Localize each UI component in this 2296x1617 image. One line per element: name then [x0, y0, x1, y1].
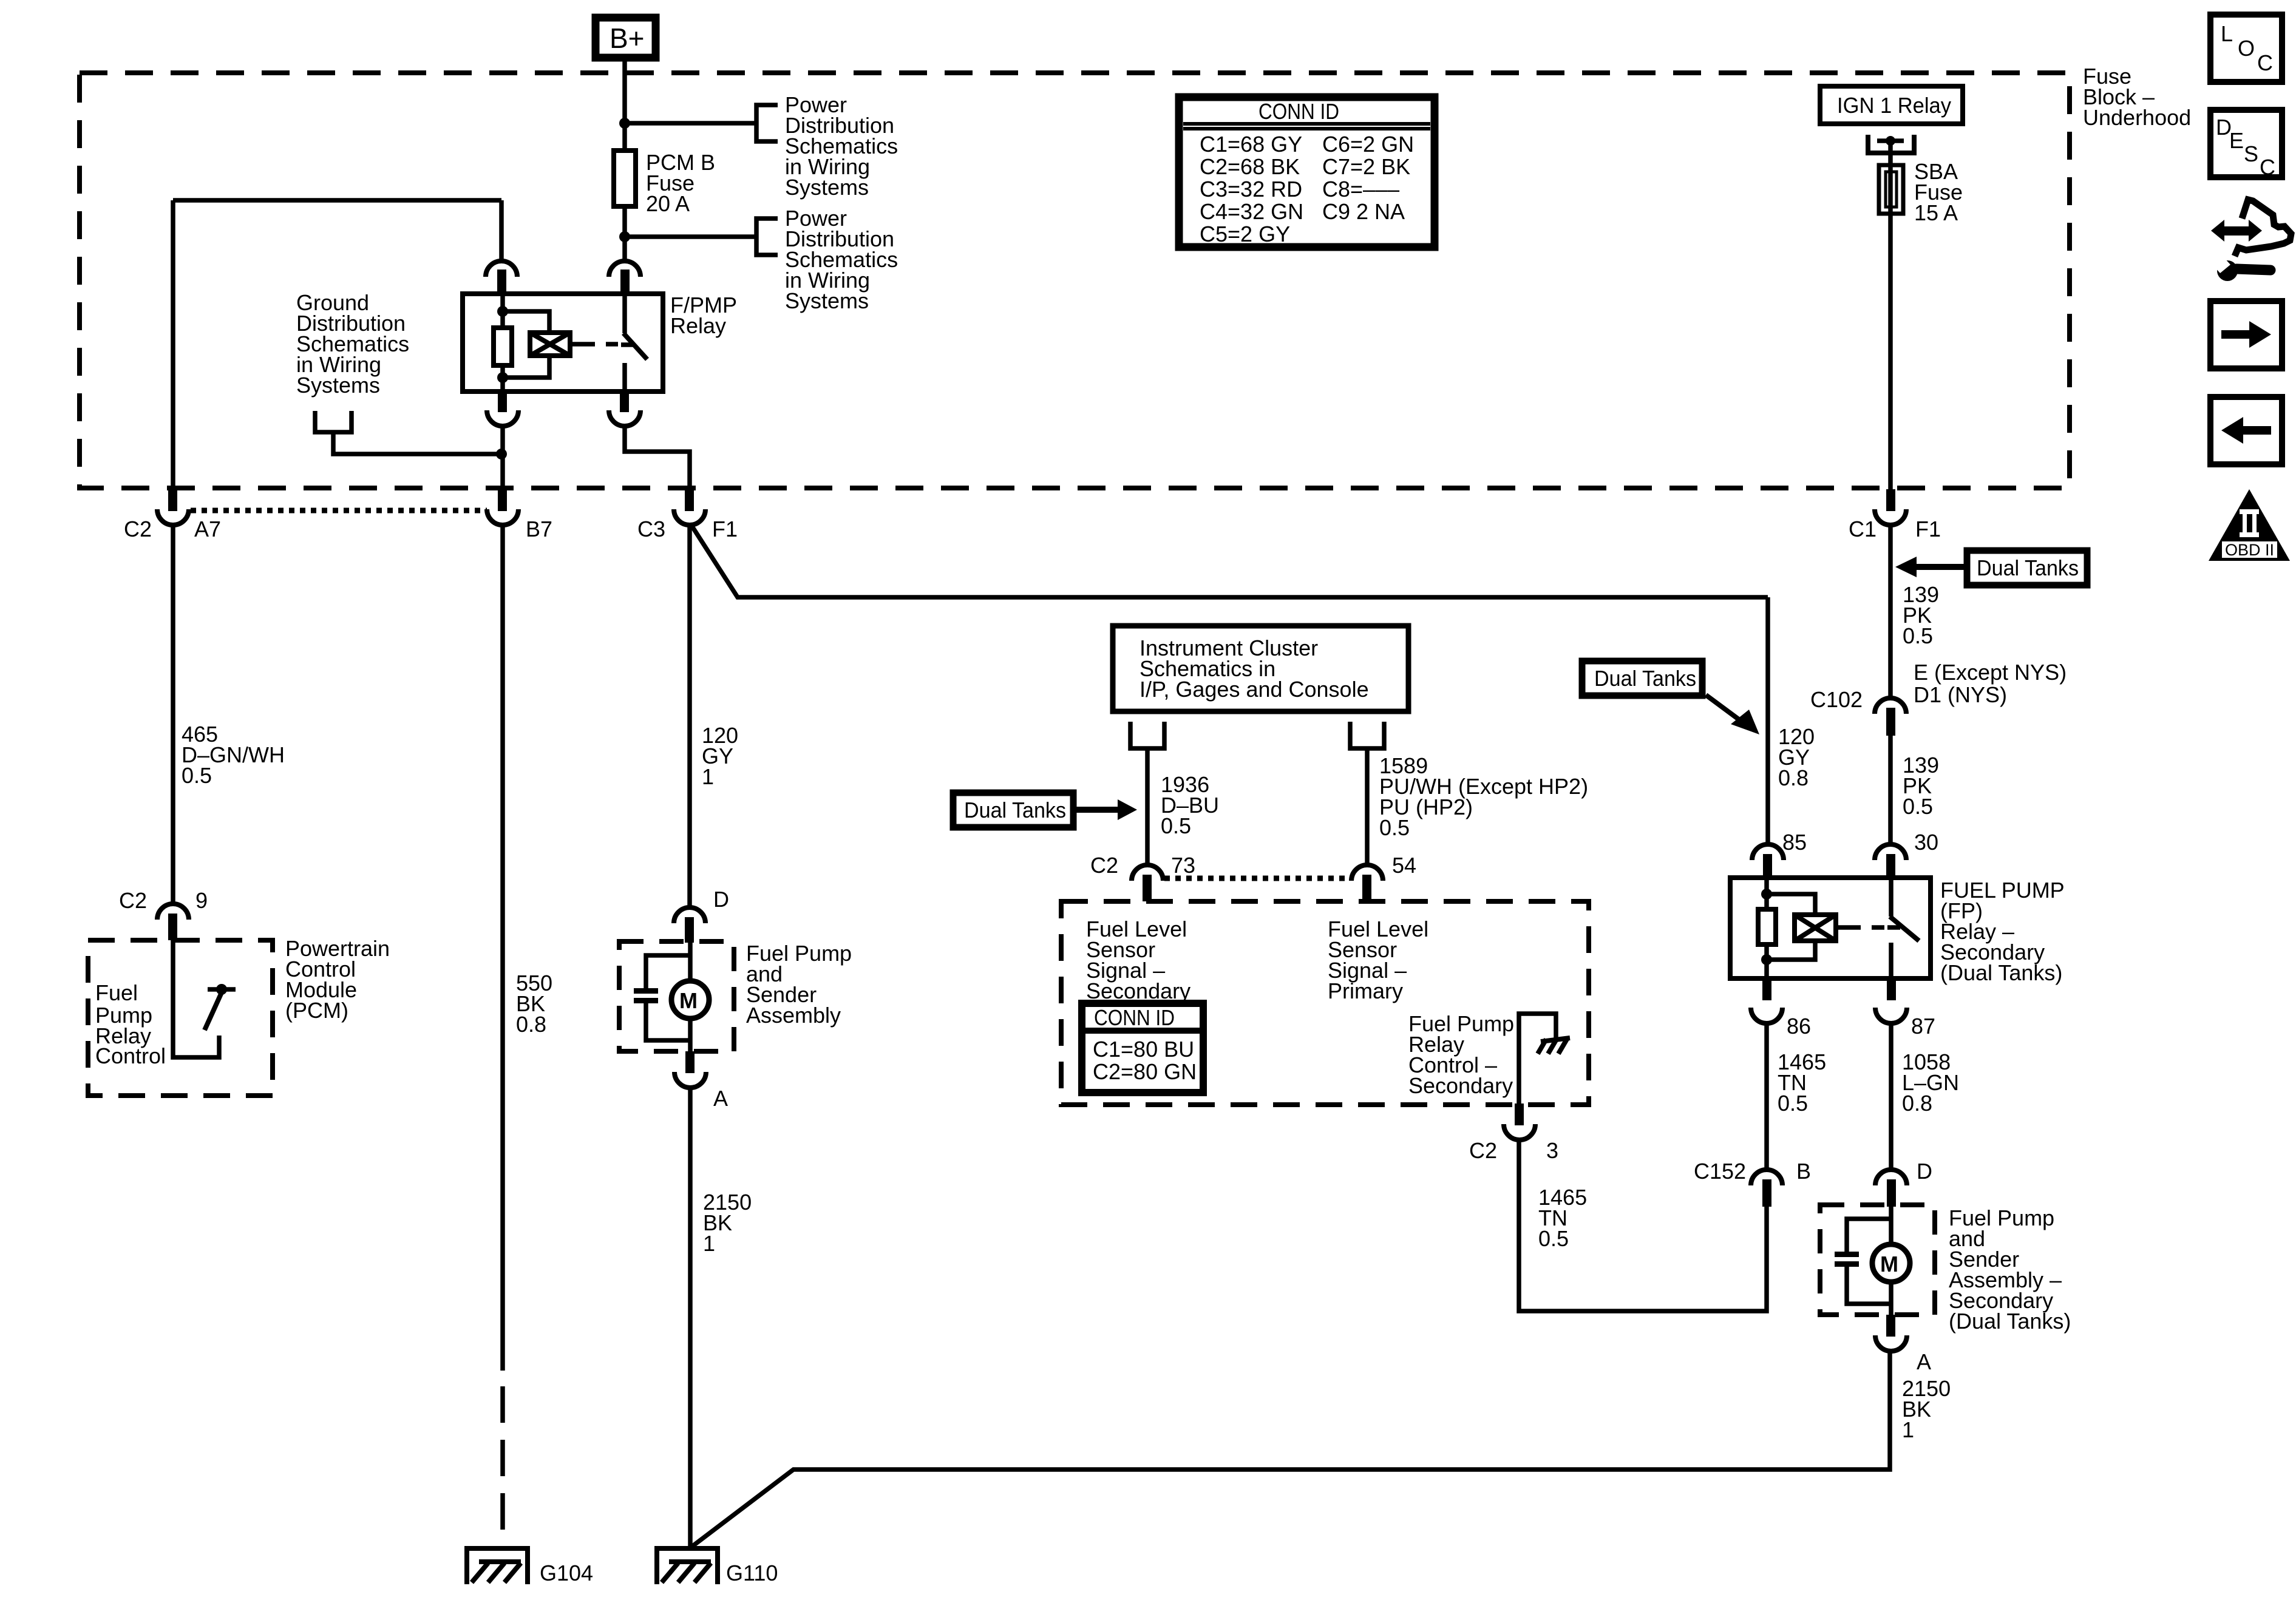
wire IGN feed through SBA fuse: [1888, 143, 1893, 489]
svg-text:CONN ID: CONN ID: [1258, 99, 1339, 124]
wire motor to box bottom: [688, 1019, 693, 1051]
PCM middle dashed box: [1061, 901, 1589, 1105]
capacitor branch secondary pump: [1835, 1219, 1891, 1304]
connector 85: [1752, 830, 1807, 879]
svg-text:Systems: Systems: [296, 373, 380, 398]
table CONN ID PCM: [1082, 1003, 1203, 1093]
svg-text:C5=2 GY: C5=2 GY: [1200, 222, 1290, 246]
icon LOC box: [2210, 15, 2282, 82]
svg-text:3: 3: [1546, 1138, 1558, 1163]
svg-text:C152: C152: [1694, 1159, 1746, 1184]
fuse PCM B 20 A: [614, 150, 715, 216]
driver output with ground ref: [1519, 1014, 1556, 1105]
off-page bracket power distribution 2: [756, 219, 778, 255]
label Powertrain Control Module PCM left: [285, 936, 390, 1023]
svg-text:Secondary: Secondary: [1086, 978, 1190, 1003]
wire actuation dashed link: [580, 342, 618, 347]
connector relay bottom right pin: [609, 392, 640, 426]
svg-text:C7=2 BK: C7=2 BK: [1322, 154, 1410, 179]
svg-text:F1: F1: [1915, 517, 1941, 541]
label fuel level sensor primary: [1328, 917, 1428, 1003]
svg-text:0.5: 0.5: [1538, 1226, 1569, 1251]
svg-text:Assembly: Assembly: [746, 1003, 841, 1028]
svg-text:0.5: 0.5: [1903, 623, 1933, 648]
icon next arrow box: [2210, 301, 2282, 368]
svg-text:E (Except NYS): E (Except NYS): [1914, 660, 2067, 685]
svg-text:C2=68 BK: C2=68 BK: [1200, 154, 1300, 179]
wire resistor bottom to box: [500, 365, 505, 392]
wire 1936 D-BU 0.5: [1145, 748, 1150, 867]
wire FP relay internal left leg: [1764, 878, 1769, 909]
connector C2 A7: [124, 489, 221, 541]
svg-text:L: L: [2221, 21, 2233, 46]
svg-text:C3=32 RD: C3=32 RD: [1200, 177, 1302, 202]
wire 1465 TN 0.5 from PCM: [1519, 1139, 1767, 1311]
wire F1 diagonal to main run: [691, 524, 1768, 597]
label 465 D-GN/WH 0.5: [182, 722, 285, 788]
relay IGN 1 box: [1820, 86, 1963, 124]
connector relay left top pin: [486, 261, 517, 294]
off-page bracket cluster left: [1130, 722, 1164, 748]
wire left branch horizontal: [173, 198, 501, 203]
wire secondary pump return run: [690, 1350, 1890, 1548]
svg-text:C1: C1: [1849, 517, 1877, 541]
label box Dual Tanks left: [953, 793, 1073, 827]
label Ground Distribution: [296, 290, 409, 398]
svg-text:I/P, Gages and Console: I/P, Gages and Console: [1140, 677, 1369, 702]
svg-text:1: 1: [703, 1231, 715, 1256]
svg-text:73: 73: [1171, 853, 1195, 878]
resistor relay F/PMP: [494, 328, 512, 365]
wire 1465 TN 0.5 to C152: [1764, 1022, 1769, 1171]
fuel pump secondary dashed box: [1820, 1205, 1935, 1315]
svg-text:0.8: 0.8: [516, 1012, 546, 1037]
PCM left dashed box fuel pump relay control: [88, 940, 273, 1096]
off-page bracket power distribution 1: [756, 105, 778, 141]
svg-text:0.5: 0.5: [1778, 1091, 1808, 1116]
svg-text:15 A: 15 A: [1914, 200, 1958, 225]
svg-text:E: E: [2229, 128, 2244, 153]
off-page bracket cluster right: [1350, 722, 1384, 748]
fuse holder clip IGN 1: [1868, 135, 1914, 153]
icon DESC box: [2210, 110, 2282, 180]
label 2150 BK 1 right: [1902, 1376, 1951, 1442]
ground G110: [657, 1548, 778, 1585]
svg-text:A: A: [713, 1086, 728, 1111]
svg-text:C6=2 GN: C6=2 GN: [1322, 132, 1414, 157]
wire pump feed into motor: [688, 943, 693, 979]
connector 54: [1351, 853, 1416, 901]
battery B+ terminal: [596, 18, 656, 58]
wire B+ down to junction: [622, 58, 627, 123]
svg-text:C4=32 GN: C4=32 GN: [1200, 199, 1303, 224]
label 2150 BK 1 left: [703, 1190, 752, 1256]
label 1589 PU/WH: [1379, 753, 1588, 840]
svg-text:86: 86: [1787, 1014, 1811, 1039]
capacitor branch fuel pump: [634, 955, 690, 1040]
wire 139 PK upper: [1888, 524, 1893, 700]
arrow dual tanks left: [1074, 799, 1137, 820]
svg-text:1: 1: [702, 764, 714, 789]
svg-text:Underhood: Underhood: [2083, 105, 2191, 130]
wire coil branch: [503, 311, 549, 333]
label 550 BK 0.8: [516, 971, 552, 1037]
svg-text:Systems: Systems: [785, 175, 869, 200]
node junction 2: [619, 231, 630, 242]
svg-text:C102: C102: [1810, 687, 1863, 712]
connector C1 F1: [1849, 489, 1941, 541]
svg-text:S: S: [2244, 141, 2258, 166]
svg-text:C2: C2: [1469, 1138, 1497, 1163]
label Fuel Pump and Sender Assembly: [746, 941, 852, 1028]
svg-text:0.8: 0.8: [1778, 765, 1809, 790]
label box Dual Tanks top right: [1967, 551, 2087, 585]
label F/PMP Relay: [670, 293, 737, 338]
svg-text:C: C: [2257, 50, 2273, 75]
svg-text:Control: Control: [95, 1043, 166, 1068]
wire 120 GY 0.8: [1765, 597, 1770, 846]
label 1465 TN 0.5 lower: [1538, 1185, 1587, 1251]
label Fuel Pump Relay Control: [95, 980, 166, 1068]
label power distribution 1: [785, 92, 898, 200]
svg-text:OBD II: OBD II: [2225, 541, 2274, 559]
wire down to relay switch-side top connector: [499, 200, 504, 262]
svg-text:0.5: 0.5: [1161, 813, 1191, 838]
connector C2 3: [1469, 1103, 1558, 1163]
wire branch to power distribution 1: [625, 121, 756, 126]
label Fuel Pump and Sender Assembly Secondary: [1949, 1205, 2071, 1334]
label 139 PK 0.5 upper: [1903, 582, 1939, 648]
svg-text:D: D: [1917, 1159, 1932, 1184]
svg-text:F1: F1: [712, 517, 738, 541]
svg-text:A7: A7: [194, 517, 221, 541]
label box Dual Tanks middle: [1582, 661, 1702, 696]
wire 1058 L-GN 0.8: [1889, 1022, 1894, 1171]
svg-text:C1=68 GY: C1=68 GY: [1200, 132, 1302, 157]
svg-text:87: 87: [1911, 1014, 1935, 1039]
wire 139 PK lower: [1888, 736, 1893, 846]
connector relay bottom left pin: [487, 392, 518, 426]
svg-text:Dual Tanks: Dual Tanks: [964, 798, 1066, 822]
ground G104: [467, 1548, 593, 1585]
label power distribution 2: [785, 206, 898, 313]
label fuel level sensor secondary: [1086, 917, 1190, 1003]
wire secondary pump feed: [1889, 1207, 1894, 1242]
wire FP coil stub: [1836, 925, 1846, 930]
svg-text:30: 30: [1914, 830, 1938, 855]
label 1465 TN 0.5 upper: [1778, 1049, 1826, 1116]
coil F/PMP relay: [530, 333, 570, 356]
wire FP coil branch bottom: [1767, 941, 1815, 960]
svg-text:0.5: 0.5: [1379, 815, 1410, 840]
off-page bracket ground distribution: [315, 411, 352, 432]
wire fuse to relay connector: [622, 237, 627, 262]
svg-text:CONN ID: CONN ID: [1094, 1005, 1175, 1030]
svg-text:B7: B7: [526, 517, 552, 541]
svg-text:0.5: 0.5: [182, 763, 212, 788]
svg-text:C2=80 GN: C2=80 GN: [1093, 1059, 1197, 1084]
label 120 GY 0.8: [1778, 724, 1815, 790]
wire 2150 BK 1 to ground: [688, 1086, 693, 1550]
wire relay left pin down to B7: [500, 424, 505, 492]
svg-text:Secondary: Secondary: [1408, 1073, 1513, 1098]
svg-text:(Dual Tanks): (Dual Tanks): [1940, 960, 2062, 985]
svg-text:9: 9: [195, 888, 208, 913]
motor M secondary pump: [1872, 1244, 1910, 1282]
switch FP relay: [1887, 878, 1919, 978]
node relay dot bottom: [497, 372, 508, 383]
node ground-branch junction: [496, 449, 507, 459]
svg-text:(Dual Tanks): (Dual Tanks): [1949, 1309, 2071, 1334]
arrow dual tanks top right: [1895, 557, 1964, 577]
node FP relay dot bottom: [1761, 954, 1772, 965]
svg-text:Relay: Relay: [670, 313, 726, 338]
label Fuse Block - Underhood: [2083, 64, 2191, 130]
svg-text:0.8: 0.8: [1902, 1091, 1932, 1116]
connector 87: [1875, 978, 1935, 1039]
svg-text:20 A: 20 A: [646, 191, 690, 216]
wire coil branch bottom: [503, 356, 549, 378]
svg-text:54: 54: [1392, 853, 1416, 878]
wire branch to power distribution 2: [625, 234, 756, 239]
wire FP coil branch top: [1767, 894, 1815, 915]
relay F/PMP box: [463, 294, 663, 392]
svg-text:C8=–––: C8=–––: [1322, 177, 1399, 202]
svg-text:C2: C2: [119, 888, 147, 913]
svg-text:C1=80 BU: C1=80 BU: [1093, 1037, 1194, 1062]
fuse SBA 15 A: [1879, 159, 1963, 225]
table CONN ID underhood: [1179, 97, 1435, 247]
switch F/PMP relay: [621, 294, 647, 392]
label fuel pump relay control secondary: [1408, 1011, 1514, 1098]
connector A fuel pump: [674, 1051, 728, 1111]
wire relay internal left leg: [500, 294, 505, 328]
connector C2 73: [1090, 853, 1195, 901]
connector B7: [487, 489, 552, 541]
wire FP resistor bottom: [1764, 944, 1769, 978]
wire coil actuating stub: [570, 342, 580, 347]
svg-text:M: M: [679, 988, 698, 1013]
svg-text:M: M: [1880, 1252, 1898, 1276]
connector C2 9: [119, 888, 208, 940]
wire 550 BK 0.8 solid: [500, 524, 505, 1371]
svg-text:B: B: [1796, 1159, 1811, 1184]
svg-text:D1 (NYS): D1 (NYS): [1914, 682, 2007, 707]
svg-text:O: O: [2238, 36, 2255, 61]
wire secondary motor to box bottom: [1889, 1282, 1894, 1315]
chassis ground symbol internal: [1538, 1038, 1570, 1054]
svg-text:Systems: Systems: [785, 288, 869, 313]
label 139 PK 0.5 lower: [1903, 753, 1939, 819]
icon back arrow box: [2210, 397, 2282, 464]
connector D fuel pump: [674, 887, 729, 943]
svg-text:C2: C2: [1090, 853, 1118, 878]
connector C3 F1: [637, 489, 738, 541]
instrument cluster box: [1113, 626, 1408, 711]
wire A7 branch down: [171, 200, 175, 492]
wire C2 dotted connector face line: [191, 508, 487, 514]
node relay dot top: [497, 306, 508, 317]
svg-text:G110: G110: [726, 1561, 778, 1585]
node junction 1: [619, 118, 630, 129]
svg-text:1: 1: [1902, 1417, 1914, 1442]
svg-text:Fuel: Fuel: [95, 980, 138, 1005]
svg-text:IGN 1 Relay: IGN 1 Relay: [1837, 93, 1951, 118]
node FP relay dot top: [1761, 889, 1772, 900]
svg-text:C9 2 NA: C9 2 NA: [1322, 199, 1405, 224]
connector C102: [1810, 687, 1906, 736]
svg-text:Primary: Primary: [1328, 978, 1403, 1003]
label 1936 D-BU 0.5: [1161, 772, 1219, 838]
label 120 GY 1: [702, 723, 738, 789]
svg-text:Dual Tanks: Dual Tanks: [1594, 666, 1696, 691]
connector relay coil-side top pin (fused feed): [609, 261, 640, 294]
coil FP relay: [1795, 915, 1836, 941]
svg-text:(PCM): (PCM): [285, 998, 348, 1023]
wire FP actuation dashed link: [1846, 925, 1884, 930]
connector C152 B: [1694, 1159, 1811, 1207]
svg-text:G104: G104: [540, 1561, 593, 1585]
wire junction1 to junction2: [622, 123, 627, 237]
wire 465 D-GN/WH 0.5: [171, 524, 175, 906]
connector 86: [1751, 978, 1811, 1039]
fuse block underhood dashed boundary: [80, 73, 2070, 488]
svg-text:Dual Tanks: Dual Tanks: [1977, 555, 2079, 580]
wire relay right pin jog to C3 F1: [625, 424, 690, 492]
connector 30: [1875, 830, 1938, 879]
arrow dual tanks middle diagonal: [1706, 695, 1759, 734]
resistor FP relay: [1758, 909, 1776, 944]
fuel pump and sender assembly dashed box: [619, 941, 734, 1051]
svg-text:C3: C3: [637, 517, 665, 541]
svg-text:D: D: [713, 887, 729, 912]
wire 1589 signal primary: [1365, 748, 1370, 867]
label E except NYS: [1914, 660, 2067, 707]
icon diagnostic arrows wrench: [2211, 200, 2291, 281]
switch fuel pump relay control driver: [173, 940, 236, 1057]
svg-text:A: A: [1917, 1349, 1931, 1374]
connector A secondary pump: [1875, 1315, 1931, 1374]
svg-text:85: 85: [1782, 830, 1807, 855]
motor M fuel pump: [671, 981, 709, 1019]
svg-text:B+: B+: [610, 22, 645, 54]
connector D secondary pump: [1875, 1159, 1932, 1207]
icon OBD II triangle: [2209, 489, 2290, 561]
wire 550 BK dashed segment: [500, 1386, 505, 1550]
wire C2 dotted face line middle: [1164, 876, 1350, 881]
relay FUEL PUMP FP secondary box: [1730, 878, 1931, 978]
label FUEL PUMP FP Relay Secondary: [1940, 878, 2065, 985]
wire 120 GY 1: [687, 524, 692, 909]
svg-text:C2: C2: [124, 517, 152, 541]
label 1058 L-GN 0.8: [1902, 1049, 1959, 1116]
wire ground distribution to relay ground leg: [333, 432, 501, 454]
svg-text:C: C: [2260, 155, 2275, 180]
svg-text:0.5: 0.5: [1903, 794, 1933, 819]
